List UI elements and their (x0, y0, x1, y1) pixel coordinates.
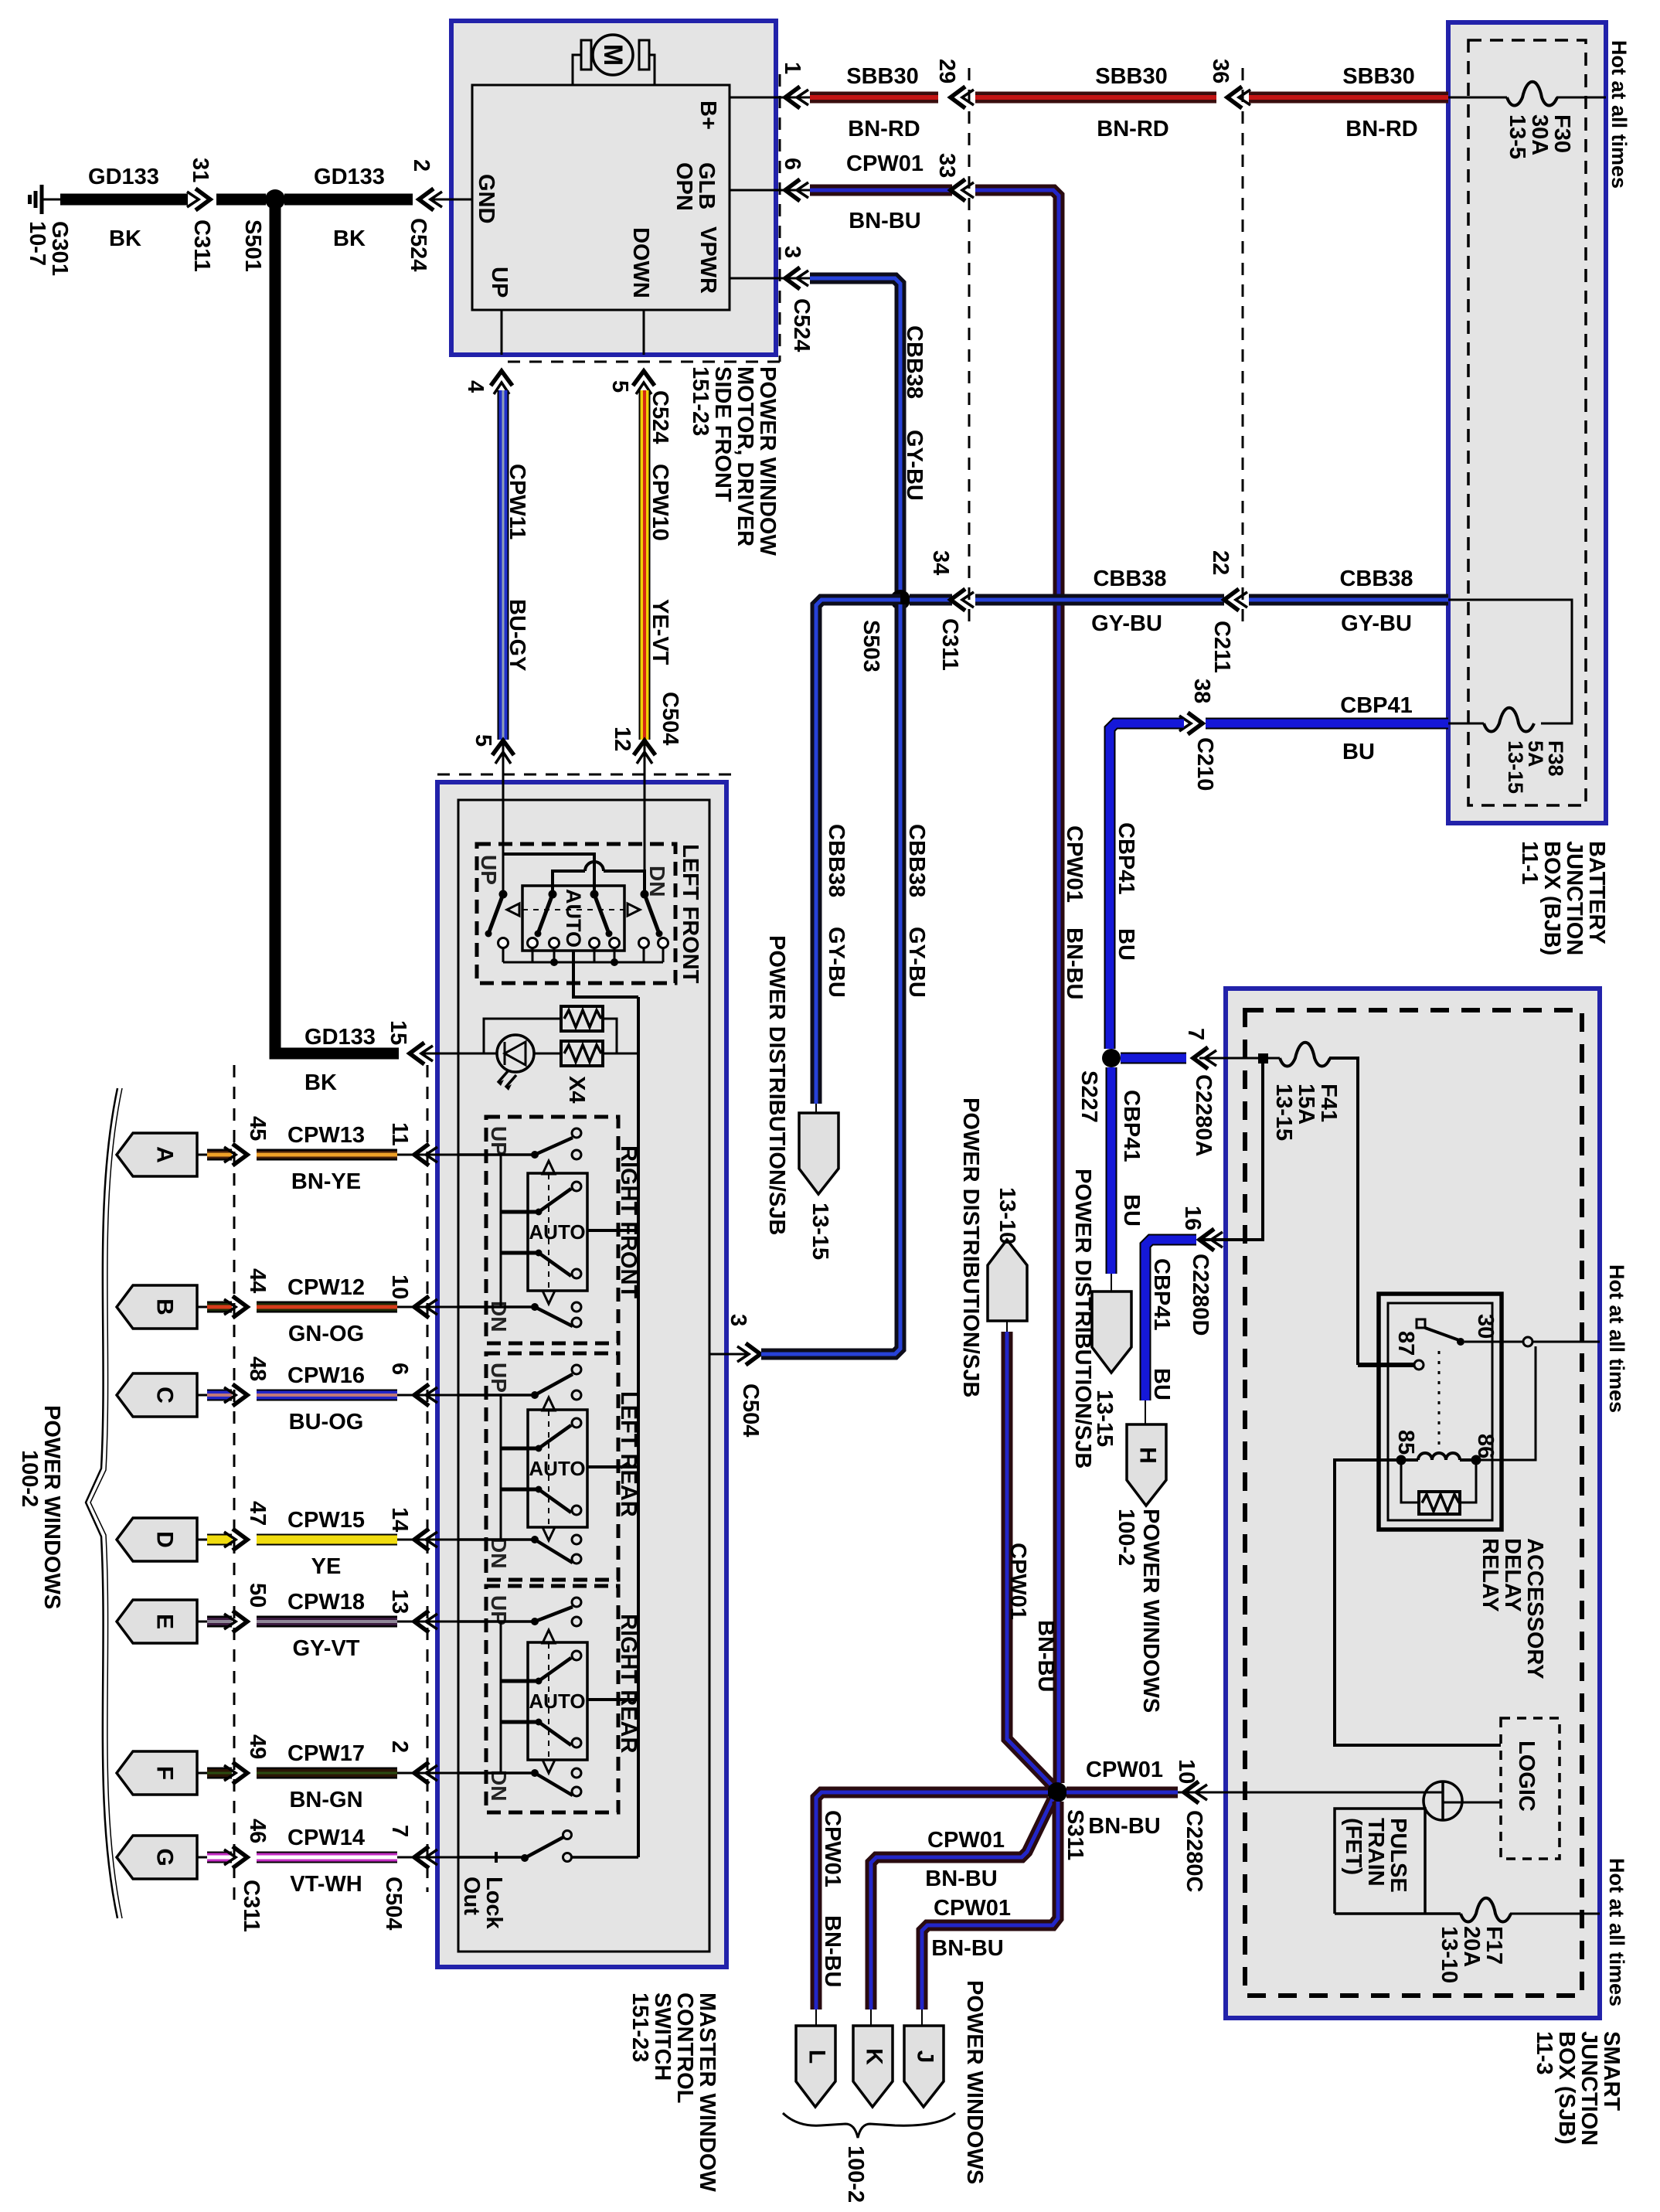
svg-text:CBB38: CBB38 (904, 824, 929, 897)
connector D (117, 1518, 197, 1561)
svg-text:13-15: 13-15 (808, 1203, 832, 1260)
wire CPW01 BN-BU to K (871, 1799, 1053, 2010)
svg-text:DELAY: DELAY (1500, 1538, 1525, 1612)
svg-text:86: 86 (1473, 1434, 1498, 1458)
motor pin line VPWR (730, 277, 810, 280)
svg-text:CBP41: CBP41 (1340, 693, 1413, 718)
wire CPW15 stub at D (207, 1534, 232, 1546)
svg-text:7: 7 (1183, 1028, 1208, 1040)
wire GD133 BK segment 2 (284, 194, 413, 206)
svg-text:13: 13 (387, 1589, 412, 1614)
lead to connector H (1145, 1400, 1146, 1424)
wire CBP41 BU corner down (1110, 723, 1184, 1049)
svg-text:2: 2 (387, 1741, 412, 1753)
SJB inner dashed outline (1245, 1010, 1582, 1996)
svg-text:Hot at all times: Hot at all times (1607, 40, 1631, 189)
svg-text:CPW15: CPW15 (287, 1508, 365, 1533)
svg-text:E: E (152, 1614, 178, 1629)
wire GD133 BK segment 1 (60, 194, 188, 206)
wire CBB38 GY-BU segment 3 (1249, 594, 1448, 606)
svg-text:Out: Out (459, 1877, 484, 1915)
svg-text:CPW01: CPW01 (846, 151, 924, 176)
label G301 10-7 (25, 221, 72, 276)
svg-text:VT-WH: VT-WH (290, 1872, 362, 1897)
svg-text:G: G (152, 1848, 178, 1866)
splice S227 (1102, 1049, 1121, 1067)
svg-text:3: 3 (726, 1314, 750, 1326)
connector 31 C311 arrow (196, 189, 210, 210)
wire CPW01 BN-BU from pin 6 (810, 185, 952, 196)
lead from 13-10 arrow (1006, 1321, 1008, 1332)
wire CPW11 BU-GY (498, 390, 509, 740)
svg-text:SBB30: SBB30 (846, 64, 919, 89)
switch pin 5 arrow (492, 740, 514, 755)
motor brushes (581, 40, 591, 70)
svg-text:BN-RD: BN-RD (1345, 117, 1417, 141)
svg-text:OPN: OPN (672, 162, 696, 211)
connector arrow 38 (1188, 713, 1202, 734)
switch pin 12 arrow (634, 740, 655, 755)
svg-text:GN-OG: GN-OG (288, 1322, 364, 1346)
lead from connector E (197, 1621, 210, 1623)
svg-text:CPW01: CPW01 (934, 1896, 1011, 1921)
label battery junction box (1517, 841, 1609, 955)
svg-text:C311: C311 (239, 1880, 264, 1932)
connector F (117, 1751, 197, 1795)
svg-text:JUNCTION: JUNCTION (1562, 841, 1587, 955)
wire CPW16 BU-OG (257, 1390, 397, 1401)
svg-text:BN-BU: BN-BU (1088, 1814, 1160, 1839)
svg-text:13-15: 13-15 (1092, 1390, 1117, 1447)
connector C504 dashed line left (427, 1065, 429, 1892)
svg-text:CPW01: CPW01 (1062, 825, 1087, 903)
svg-text:POWER DISTRIBUTION/SJB: POWER DISTRIBUTION/SJB (764, 935, 789, 1235)
connector C311 dashed line top (968, 68, 971, 629)
svg-text:BU: BU (1149, 1368, 1174, 1400)
wire GD133 BK vertical from S501 (275, 204, 399, 1053)
lockout switch (458, 1831, 638, 1863)
svg-text:29: 29 (934, 59, 959, 83)
connector arrow 48 (233, 1384, 247, 1406)
svg-text:11-1: 11-1 (1517, 841, 1542, 884)
svg-text:5: 5 (471, 734, 495, 747)
svg-text:GY-BU: GY-BU (902, 430, 927, 501)
label F17 20A 13-10 (1437, 1926, 1506, 1983)
svg-text:G301: G301 (47, 221, 72, 276)
wire SBB30 BN-RD segment 2 (975, 92, 1216, 104)
pin 4 arrow (491, 371, 512, 386)
svg-text:CBP41: CBP41 (1114, 822, 1138, 895)
fuse F41 15A (1280, 1043, 1330, 1067)
svg-text:BN-GN: BN-GN (289, 1788, 362, 1812)
wire CPW01 BN-BU from 13-10 (1007, 1332, 1053, 1786)
svg-text:ACCESSORY: ACCESSORY (1522, 1538, 1547, 1679)
left front common drop (573, 951, 638, 997)
relay 87 feed (1358, 1363, 1414, 1367)
svg-text:UP: UP (487, 1363, 511, 1393)
svg-text:GD133: GD133 (88, 165, 159, 189)
svg-text:5: 5 (607, 380, 632, 393)
pin 14 lead into switch (397, 1539, 458, 1541)
link down to pin 16 (1199, 1058, 1263, 1240)
right rear window switch block (458, 1586, 638, 1812)
svg-text:45: 45 (245, 1116, 270, 1141)
svg-text:CONTROL: CONTROL (672, 1993, 697, 2103)
wire CPW13 BN-YE (257, 1149, 397, 1161)
svg-text:11: 11 (387, 1122, 412, 1146)
connector C211 dashed line (1242, 68, 1244, 629)
hot feed line to relay 30 (1532, 1341, 1600, 1343)
connector L (796, 2026, 835, 2107)
svg-text:CBB38: CBB38 (1093, 567, 1166, 591)
svg-text:BN-BU: BN-BU (925, 1867, 997, 1891)
svg-text:87: 87 (1393, 1331, 1418, 1356)
svg-text:100-2: 100-2 (843, 2146, 868, 2203)
pin 16 arrow C2280D (1199, 1229, 1214, 1251)
svg-text:12: 12 (610, 727, 634, 751)
svg-text:50: 50 (245, 1583, 270, 1608)
wire SBB30 BN-RD segment 1 (810, 92, 938, 104)
label master window control switch (628, 1993, 719, 2192)
pin 2 arrow C524 (419, 189, 434, 210)
label F41 15A 13-15 (1271, 1084, 1341, 1141)
svg-text:MASTER WINDOW: MASTER WINDOW (695, 1993, 719, 2192)
svg-text:AUTO: AUTO (562, 889, 585, 948)
svg-text:UP: UP (477, 855, 501, 885)
svg-text:CPW14: CPW14 (287, 1826, 365, 1850)
svg-text:(FET): (FET) (1341, 1818, 1366, 1875)
motor box name (688, 366, 780, 556)
svg-text:C210: C210 (1192, 737, 1217, 791)
wire GD133 BK stub (216, 194, 266, 206)
BJB internal CBB38 link (1448, 600, 1572, 723)
connector arrow 47 (233, 1529, 247, 1550)
relay 85 line to logic (1335, 1460, 1501, 1745)
F17 to hot feed (1510, 1913, 1600, 1915)
svg-text:38: 38 (1189, 679, 1214, 703)
svg-text:GY-BU: GY-BU (904, 927, 929, 998)
svg-text:100-2: 100-2 (17, 1450, 42, 1507)
label 100-2 power windows H (1114, 1509, 1163, 1713)
svg-text:47: 47 (245, 1501, 270, 1526)
power distribution arrow 13-10 (988, 1240, 1027, 1321)
svg-text:CPW01: CPW01 (1086, 1758, 1163, 1782)
wire CBP41 BU to pin 16 (1145, 1240, 1196, 1400)
svg-text:M: M (598, 44, 628, 66)
wire CPW17 BN-GN (257, 1768, 397, 1779)
svg-text:6: 6 (387, 1363, 412, 1375)
smart junction box (SJB) (1226, 989, 1600, 2018)
svg-text:GD133: GD133 (304, 1025, 376, 1050)
wire CPW18 GY-VT (257, 1616, 397, 1628)
pulse train (FET) box (1335, 1809, 1425, 1914)
svg-text:POWER WINDOW: POWER WINDOW (755, 366, 780, 556)
motor inner box (472, 85, 730, 310)
connector B (117, 1285, 197, 1329)
lead to distribution arrow 13-15 right (1111, 1274, 1112, 1291)
svg-text:CBB38: CBB38 (902, 325, 927, 399)
motor pin line UP (501, 310, 503, 355)
connector J (904, 2026, 944, 2107)
BJB F38 to CBP41 (1448, 723, 1484, 725)
svg-text:30A: 30A (1527, 114, 1552, 155)
battery junction box (BJB) (1448, 22, 1606, 823)
svg-text:C2280A: C2280A (1191, 1074, 1216, 1156)
svg-text:BN-RD: BN-RD (1097, 117, 1168, 141)
fuse F38 5A (1484, 708, 1534, 732)
svg-text:F41: F41 (1316, 1084, 1341, 1122)
svg-text:AUTO: AUTO (529, 1220, 585, 1244)
connector arrow 22 (1224, 589, 1239, 611)
svg-text:GLB: GLB (694, 162, 719, 209)
svg-text:C504: C504 (381, 1877, 406, 1930)
svg-text:49: 49 (245, 1734, 270, 1759)
svg-text:SMART: SMART (1599, 2031, 1624, 2111)
lead from connector G (197, 1856, 210, 1859)
connector H (1127, 1424, 1166, 1506)
svg-text:BN-BU: BN-BU (1033, 1620, 1058, 1692)
svg-text:15: 15 (386, 1020, 410, 1045)
pin 11 lead into switch (397, 1154, 458, 1156)
wire CPW13 stub at A (207, 1149, 232, 1161)
svg-text:14: 14 (387, 1507, 412, 1532)
wire CPW18 stub at E (207, 1616, 232, 1628)
svg-text:13-15: 13-15 (1504, 740, 1527, 794)
lead from connector C (197, 1394, 210, 1397)
svg-text:SBB30: SBB30 (1342, 64, 1415, 89)
motor pin line GLB OPN (730, 189, 810, 192)
master window control switch box (437, 782, 726, 1967)
svg-text:BATTERY: BATTERY (1584, 841, 1609, 944)
svg-text:AUTO: AUTO (529, 1457, 585, 1480)
wire CPW10 YE-VT (639, 390, 651, 740)
svg-text:C524: C524 (789, 298, 814, 352)
svg-text:CPW01: CPW01 (820, 1810, 845, 1887)
svg-text:30: 30 (1473, 1314, 1498, 1339)
wire CBB38 GY-BU segment 2 (975, 594, 1224, 606)
svg-text:13-15: 13-15 (1271, 1084, 1296, 1141)
switch pin arrow 6 (414, 1384, 429, 1406)
BJB line to fuse F30 (1448, 97, 1507, 99)
svg-text:B+: B+ (696, 100, 720, 130)
svg-text:BU: BU (1119, 1194, 1144, 1227)
svg-text:S311: S311 (1063, 1809, 1087, 1860)
svg-text:S227: S227 (1077, 1070, 1101, 1123)
svg-text:DN: DN (487, 1301, 511, 1332)
lead from connector D (197, 1539, 210, 1541)
pin 10 arrow C2280C (1184, 1782, 1199, 1803)
svg-text:BK: BK (304, 1070, 337, 1095)
svg-text:10: 10 (387, 1274, 412, 1299)
lead from connector B (197, 1306, 210, 1308)
connector C524 dashed line (502, 74, 780, 362)
ground G301 (30, 185, 63, 214)
svg-text:10: 10 (1174, 1759, 1199, 1784)
label Lock Out (459, 1877, 506, 1930)
wire CPW14 stub at G (207, 1852, 232, 1863)
svg-text:85: 85 (1393, 1430, 1418, 1455)
pin 12 lead into switch (644, 740, 646, 894)
label pulse train fet (1341, 1818, 1410, 1893)
svg-text:11-3: 11-3 (1532, 2031, 1556, 2074)
svg-text:16: 16 (1180, 1206, 1205, 1230)
wire CBB38 left branch (816, 600, 900, 1104)
connector arrow 50 (233, 1611, 247, 1632)
svg-text:C524: C524 (648, 390, 672, 444)
svg-text:CBP41: CBP41 (1119, 1090, 1144, 1162)
connector C (117, 1373, 197, 1417)
wire CBP41 BU to pin 7 (1121, 1053, 1186, 1064)
F41 to relay 87 (1329, 1058, 1358, 1365)
svg-text:UP: UP (487, 1126, 511, 1156)
label F38 5A 13-15 (1504, 740, 1567, 794)
svg-text:CPW12: CPW12 (287, 1275, 365, 1300)
BJB inner dashed outline (1468, 40, 1586, 805)
pin 15 lead into switch (422, 1053, 484, 1055)
splice S501 (265, 189, 285, 209)
pin 5 arrow (633, 371, 655, 386)
connector arrow 44 (233, 1296, 247, 1318)
wire CBP41 BU horizontal (1206, 718, 1448, 730)
svg-text:2: 2 (409, 159, 434, 172)
svg-text:J: J (913, 2050, 938, 2064)
wire SBB30 BN-RD segment 3 (1249, 92, 1448, 104)
switch common bus (637, 997, 640, 1857)
junction pin7/pin16 (1258, 1053, 1268, 1063)
svg-text:DN: DN (645, 866, 669, 897)
wire CBP41 BU below S227 (1106, 1067, 1117, 1274)
svg-text:LOGIC: LOGIC (1514, 1741, 1539, 1812)
label accessory delay relay (1478, 1538, 1547, 1679)
motor pin line B+ (730, 97, 810, 99)
svg-text:CBB38: CBB38 (824, 824, 849, 897)
svg-text:C: C (152, 1387, 178, 1404)
connector arrow 29 (951, 87, 965, 108)
svg-text:BU: BU (1342, 740, 1375, 764)
svg-text:POWER WINDOWS: POWER WINDOWS (1138, 1509, 1163, 1713)
svg-text:4: 4 (463, 380, 488, 393)
splice S503 (890, 590, 910, 610)
svg-text:SWITCH: SWITCH (650, 1993, 675, 2081)
svg-text:C504: C504 (658, 692, 682, 745)
wire CPW12 GN-OG (257, 1302, 397, 1313)
motor lead right (649, 55, 655, 85)
svg-text:GD133: GD133 (314, 165, 385, 189)
svg-text:RELAY: RELAY (1478, 1538, 1502, 1612)
svg-text:BU-OG: BU-OG (289, 1410, 364, 1434)
svg-text:POWER WINDOWS: POWER WINDOWS (39, 1405, 64, 1609)
wire CPW01 BN-BU vertical (975, 190, 1059, 1783)
brace 100-2 under LKJ (783, 2113, 955, 2138)
svg-text:JUNCTION: JUNCTION (1577, 2031, 1601, 2146)
motor M1 circle (593, 35, 633, 75)
svg-text:F30: F30 (1549, 114, 1574, 153)
svg-text:BU: BU (1114, 928, 1138, 961)
fuse F30 30A (1507, 82, 1557, 106)
accessory delay relay (1379, 1294, 1536, 1530)
switch pin arrow 11 (414, 1144, 429, 1166)
svg-text:C211: C211 (1209, 621, 1234, 673)
pin 7 arrow C2280A (1193, 1047, 1208, 1069)
switch pin arrow 14 (414, 1529, 429, 1550)
resistor upper (561, 1006, 603, 1031)
svg-text:CPW16: CPW16 (287, 1363, 365, 1388)
motor lead left (573, 55, 581, 85)
splice S311 (1047, 1782, 1067, 1802)
svg-text:22: 22 (1208, 550, 1233, 575)
connector K (853, 2026, 893, 2107)
resistor lower (561, 1041, 603, 1066)
svg-text:F17: F17 (1481, 1926, 1506, 1965)
svg-text:C504: C504 (738, 1383, 763, 1437)
svg-text:46: 46 (245, 1819, 270, 1843)
svg-text:S503: S503 (859, 620, 883, 672)
lead from connector F (197, 1772, 210, 1775)
svg-text:MOTOR, DRIVER: MOTOR, DRIVER (733, 366, 757, 546)
pin 10 lead to FET (1178, 1792, 1424, 1794)
svg-text:BN-YE: BN-YE (291, 1169, 361, 1194)
svg-text:POWER DISTRIBUTION/SJB: POWER DISTRIBUTION/SJB (958, 1097, 983, 1397)
svg-text:151-23: 151-23 (628, 1993, 652, 2062)
connector E (117, 1600, 197, 1643)
svg-text:CPW01: CPW01 (1005, 1543, 1030, 1620)
svg-text:LEFT FRONT: LEFT FRONT (678, 844, 702, 984)
svg-text:DOWN: DOWN (628, 227, 653, 298)
wire CPW01 BN-BU to pin 10 (1066, 1787, 1178, 1799)
switch inner box (458, 800, 709, 1952)
brace power windows 100-2 (86, 1088, 117, 1918)
wire CPW16 stub at C (207, 1390, 232, 1401)
svg-text:CPW13: CPW13 (287, 1123, 365, 1148)
connector arrow 49 (233, 1762, 247, 1784)
svg-text:CBP41: CBP41 (1149, 1258, 1174, 1331)
svg-text:UP: UP (487, 267, 512, 298)
svg-text:BN-RD: BN-RD (848, 117, 920, 141)
svg-text:CPW10: CPW10 (648, 464, 672, 541)
svg-text:CPW11: CPW11 (505, 464, 529, 539)
svg-text:SIDE FRONT: SIDE FRONT (710, 366, 735, 502)
label smart junction box (1532, 2031, 1624, 2146)
pin 7 lead to F41 (1199, 1057, 1280, 1060)
pin 3 C504 arrow (746, 1343, 760, 1365)
svg-text:DN: DN (487, 1770, 511, 1801)
connector arrow 36 (1227, 87, 1242, 108)
connector G (117, 1836, 197, 1879)
wire CBB38 down to C504 (761, 604, 900, 1354)
svg-text:POWER DISTRIBUTION/SJB: POWER DISTRIBUTION/SJB (1070, 1169, 1095, 1468)
lead to distribution arrow 13-15 left (815, 1104, 817, 1113)
wire CPW15 YE (257, 1534, 397, 1546)
svg-text:Hot at all times: Hot at all times (1605, 1858, 1628, 2006)
svg-text:Lock: Lock (481, 1877, 506, 1930)
FET output transistor (1424, 1782, 1501, 1820)
svg-text:BN-BU: BN-BU (849, 209, 920, 233)
motor pin label GLB OPN (672, 162, 719, 211)
svg-text:K: K (862, 2048, 887, 2065)
svg-text:BU-GY: BU-GY (505, 599, 529, 671)
svg-text:POWER WINDOWS: POWER WINDOWS (962, 1980, 987, 2184)
pin 1 arrow (785, 87, 800, 108)
svg-text:GND: GND (474, 174, 498, 223)
svg-text:GY-BU: GY-BU (824, 927, 849, 998)
wire CPW12 stub at B (207, 1302, 232, 1313)
fuse F17 20A (1461, 1898, 1511, 1922)
pin 2 lead into switch (397, 1772, 458, 1775)
svg-text:BOX (SJB): BOX (SJB) (1554, 2031, 1579, 2145)
svg-text:S501: S501 (240, 219, 265, 272)
svg-text:7: 7 (387, 1825, 412, 1837)
svg-text:BK: BK (333, 226, 366, 251)
